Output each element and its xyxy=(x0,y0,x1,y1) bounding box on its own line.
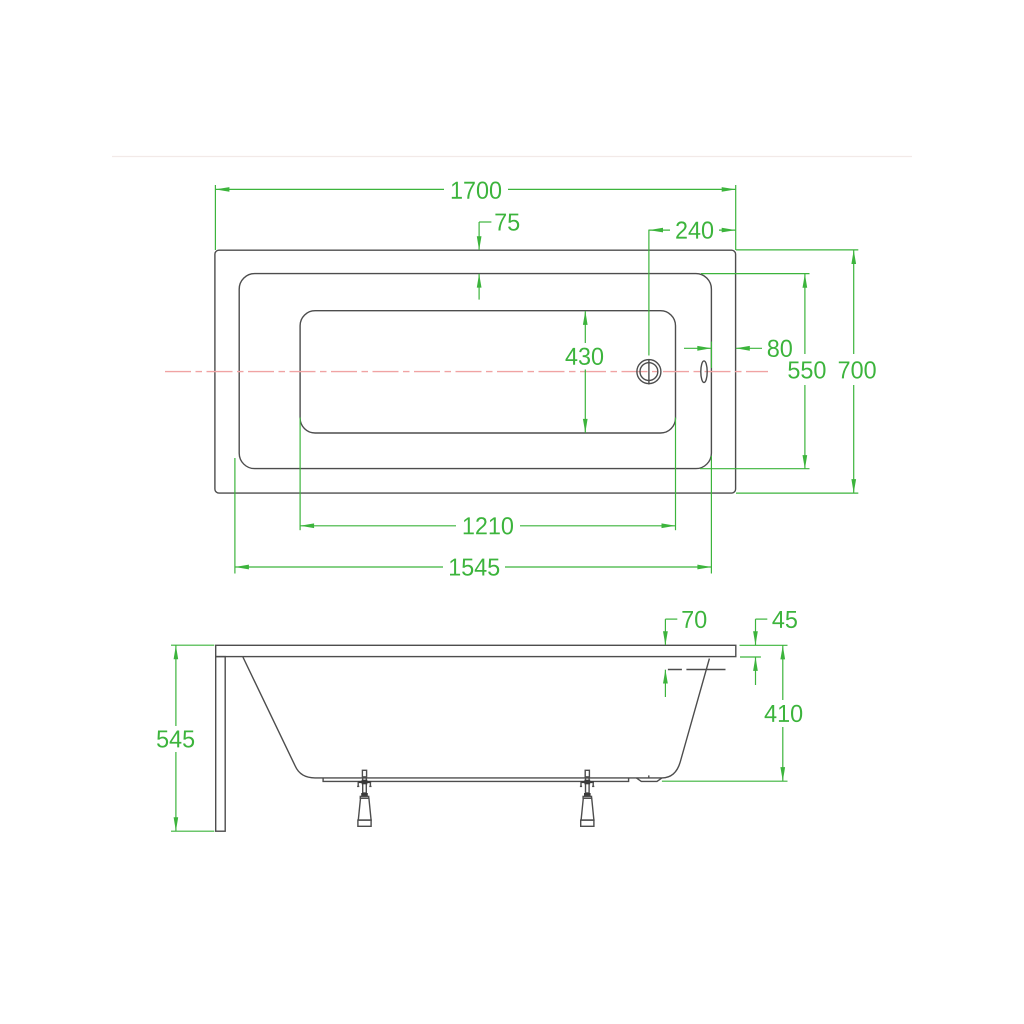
dimension 545 xyxy=(157,645,214,831)
tub outer rim rectangle xyxy=(215,250,736,493)
drain recess xyxy=(636,778,662,782)
dimension 1700 xyxy=(215,182,735,251)
foot 1 xyxy=(357,770,371,826)
dimension 410 xyxy=(662,645,802,781)
red centerline xyxy=(165,371,768,373)
dimension 1210 xyxy=(300,418,675,535)
dimension 70 xyxy=(663,611,706,697)
tub shell outline xyxy=(243,657,710,778)
dimension 45 xyxy=(740,611,797,685)
dimension 550 xyxy=(700,274,826,470)
overflow hole ellipse xyxy=(701,361,707,383)
dimension 75 xyxy=(477,214,519,300)
dimension 240 xyxy=(649,221,736,355)
overflow dashed line xyxy=(668,669,726,671)
basin bottom rectangle xyxy=(300,311,675,433)
faint sheet border line xyxy=(112,156,912,158)
dimension 80 xyxy=(684,340,792,368)
support board xyxy=(323,778,628,782)
drain tick xyxy=(648,775,650,778)
tub inner rim rectangle xyxy=(239,274,711,469)
rim bar xyxy=(216,645,736,656)
dimension 430 xyxy=(566,311,604,433)
drain outer circle xyxy=(637,360,661,384)
left apron panel xyxy=(216,657,226,832)
drain inner circle xyxy=(640,363,658,381)
foot 2 xyxy=(580,770,594,826)
dimension 700 xyxy=(736,250,876,493)
dimension 1545 xyxy=(235,456,712,576)
drain crosshair vertical xyxy=(648,359,650,385)
